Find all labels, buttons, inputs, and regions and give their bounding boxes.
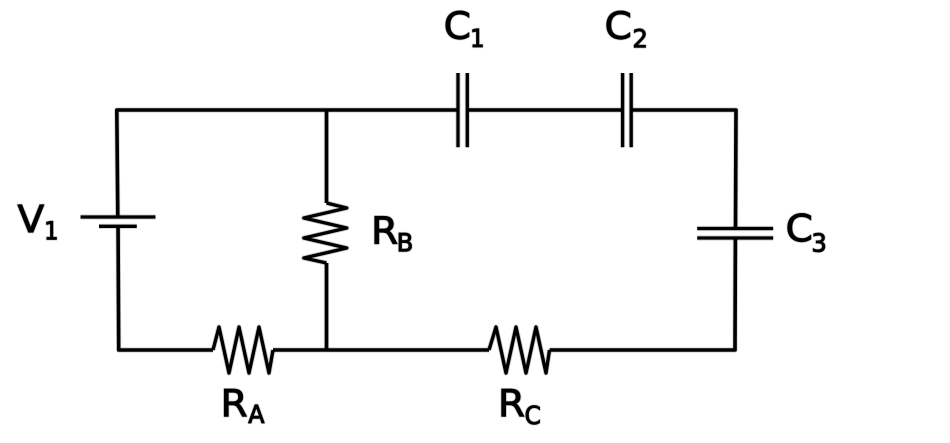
label RA main R bbox=[224, 389, 246, 416]
capacitor C1 right plate bbox=[466, 73, 469, 147]
label RB subscript B bbox=[399, 233, 411, 251]
label C1 main C bbox=[446, 11, 469, 39]
label RA subscript A bbox=[248, 405, 264, 423]
battery V1 short plate bbox=[99, 225, 137, 228]
label V1 main V bbox=[18, 205, 44, 232]
label C3 subscript 3 bbox=[813, 233, 825, 252]
label C2 main C bbox=[607, 11, 630, 39]
label RC subscript C bbox=[526, 406, 540, 425]
wire C3 to bottom-right corner to R_C bbox=[550, 238, 736, 350]
capacitor C2 left plate bbox=[621, 73, 624, 147]
label V1 subscript 1 bbox=[47, 221, 57, 239]
wire C2 to top-right corner down to C3 bbox=[631, 110, 736, 229]
label C2 subscript 2 bbox=[634, 29, 645, 47]
wire R_C to R_A bbox=[273, 348, 489, 352]
wire R_B to bottom node bbox=[325, 263, 329, 350]
label RC main R bbox=[502, 389, 524, 416]
battery V1 long plate bbox=[81, 215, 156, 218]
label RB main R bbox=[375, 216, 397, 243]
resistor RB zigzag bbox=[304, 203, 347, 263]
capacitor C3 bottom plate bbox=[697, 236, 773, 239]
resistor RA zigzag bbox=[213, 327, 273, 373]
wire battery to top-left corner to C1 bbox=[117, 110, 458, 217]
capacitor C1 left plate bbox=[456, 73, 459, 147]
wire top node to R_B bbox=[325, 110, 329, 203]
capacitor C2 right plate bbox=[630, 73, 633, 147]
label C3 main C bbox=[788, 213, 811, 241]
wire C1 to C2 bbox=[467, 108, 622, 112]
wire R_A to bottom-left corner up to battery bbox=[118, 226, 213, 350]
label C1 subscript 1 bbox=[473, 29, 483, 47]
soft-edge halo layer (decorative duplicates of wires, components and labels) bbox=[18, 11, 825, 424]
capacitor C3 top plate bbox=[697, 227, 773, 230]
resistor RC zigzag bbox=[489, 327, 550, 373]
